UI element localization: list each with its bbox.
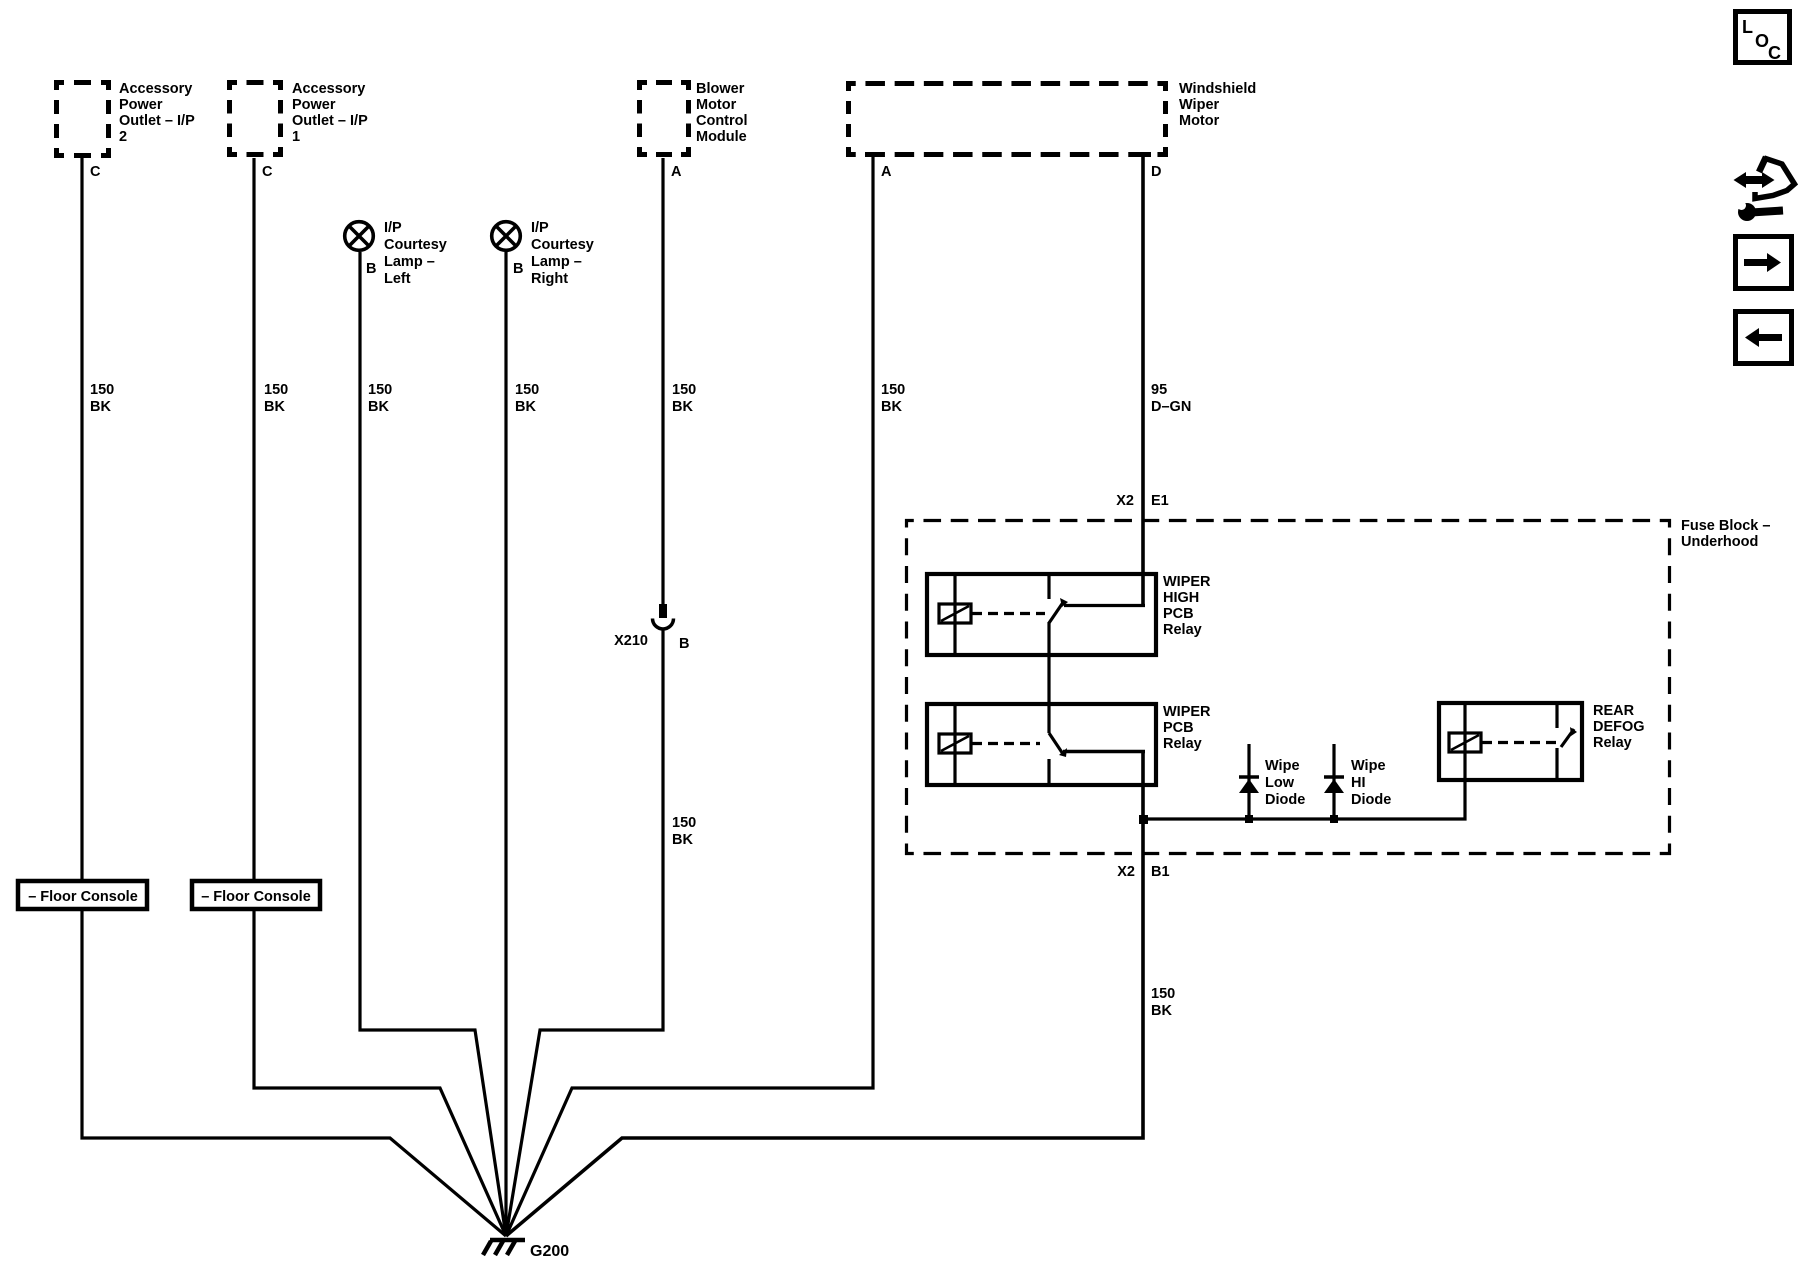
svg-text:L: L: [1742, 17, 1753, 37]
svg-text:Control: Control: [696, 113, 748, 129]
svg-text:Diode: Diode: [1351, 792, 1391, 808]
svg-text:HI: HI: [1351, 775, 1366, 791]
svg-text:Outlet – I/P: Outlet – I/P: [119, 113, 195, 129]
svg-text:150: 150: [881, 382, 905, 398]
svg-text:Diode: Diode: [1265, 792, 1305, 808]
svg-text:REAR: REAR: [1593, 703, 1635, 719]
svg-text:HIGH: HIGH: [1163, 590, 1199, 606]
svg-text:Relay: Relay: [1163, 736, 1202, 752]
svg-text:– Floor Console: – Floor Console: [28, 889, 138, 905]
svg-text:B: B: [679, 636, 689, 652]
svg-text:O: O: [1755, 31, 1769, 51]
svg-text:150: 150: [515, 382, 539, 398]
svg-text:Lamp –: Lamp –: [384, 254, 435, 270]
svg-text:C: C: [90, 164, 101, 180]
svg-text:BK: BK: [1151, 1003, 1172, 1019]
svg-text:D–GN: D–GN: [1151, 399, 1191, 415]
svg-text:E1: E1: [1151, 493, 1169, 509]
svg-text:Relay: Relay: [1163, 622, 1202, 638]
svg-text:Underhood: Underhood: [1681, 534, 1758, 550]
svg-text:BK: BK: [515, 399, 536, 415]
svg-text:Relay: Relay: [1593, 735, 1632, 751]
svg-text:D: D: [1151, 164, 1161, 180]
svg-text:BK: BK: [881, 399, 902, 415]
svg-text:150: 150: [1151, 986, 1175, 1002]
svg-text:X210: X210: [614, 633, 648, 649]
svg-text:BK: BK: [264, 399, 285, 415]
svg-text:Courtesy: Courtesy: [384, 237, 447, 253]
svg-text:A: A: [881, 164, 892, 180]
svg-text:B1: B1: [1151, 864, 1170, 880]
svg-text:G200: G200: [530, 1243, 569, 1260]
svg-text:150: 150: [672, 815, 696, 831]
svg-text:I/P: I/P: [384, 220, 402, 236]
svg-text:150: 150: [90, 382, 114, 398]
svg-text:Courtesy: Courtesy: [531, 237, 594, 253]
svg-text:Left: Left: [384, 271, 411, 287]
svg-text:Low: Low: [1265, 775, 1295, 791]
svg-text:150: 150: [672, 382, 696, 398]
svg-text:2: 2: [119, 129, 127, 145]
svg-text:BK: BK: [672, 399, 693, 415]
svg-text:X2: X2: [1116, 493, 1134, 509]
svg-text:B: B: [366, 261, 376, 277]
svg-text:Wipe: Wipe: [1351, 758, 1386, 774]
svg-text:150: 150: [368, 382, 392, 398]
svg-text:C: C: [262, 164, 273, 180]
svg-text:Outlet – I/P: Outlet – I/P: [292, 113, 368, 129]
svg-text:I/P: I/P: [531, 220, 549, 236]
svg-text:Accessory: Accessory: [119, 81, 192, 97]
svg-text:PCB: PCB: [1163, 606, 1194, 622]
svg-text:150: 150: [264, 382, 288, 398]
svg-text:1: 1: [292, 129, 300, 145]
svg-text:Module: Module: [696, 129, 747, 145]
svg-text:BK: BK: [672, 832, 693, 848]
svg-text:95: 95: [1151, 382, 1167, 398]
svg-text:BK: BK: [90, 399, 111, 415]
svg-text:WIPER: WIPER: [1163, 574, 1211, 590]
svg-text:Windshield: Windshield: [1179, 81, 1256, 97]
svg-text:Wiper: Wiper: [1179, 97, 1220, 113]
svg-text:B: B: [513, 261, 523, 277]
svg-text:Blower: Blower: [696, 81, 745, 97]
svg-text:– Floor Console: – Floor Console: [201, 889, 311, 905]
svg-text:Right: Right: [531, 271, 568, 287]
svg-text:C: C: [1768, 43, 1781, 63]
svg-text:Power: Power: [292, 97, 336, 113]
svg-text:Motor: Motor: [696, 97, 737, 113]
svg-text:PCB: PCB: [1163, 720, 1194, 736]
svg-text:DEFOG: DEFOG: [1593, 719, 1645, 735]
svg-text:A: A: [671, 164, 682, 180]
svg-text:BK: BK: [368, 399, 389, 415]
svg-text:Fuse Block –: Fuse Block –: [1681, 518, 1770, 534]
svg-text:Accessory: Accessory: [292, 81, 365, 97]
svg-text:Power: Power: [119, 97, 163, 113]
svg-text:X2: X2: [1117, 864, 1135, 880]
svg-text:Wipe: Wipe: [1265, 758, 1300, 774]
svg-text:Motor: Motor: [1179, 113, 1220, 129]
svg-text:WIPER: WIPER: [1163, 704, 1211, 720]
svg-text:Lamp –: Lamp –: [531, 254, 582, 270]
